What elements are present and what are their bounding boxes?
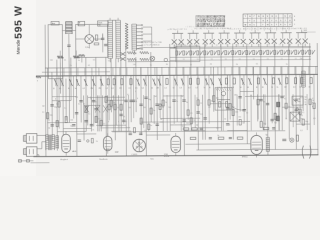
wire box link2: [79, 54, 85, 62]
value box electrolytic: [292, 96, 303, 105]
wire: [90, 76, 92, 132]
tube label VM4: [164, 154, 169, 158]
svg-text:0,1: 0,1: [237, 45, 239, 47]
resistor R44: [308, 78, 312, 89]
title maker Mende: [16, 39, 22, 54]
svg-text:1b: 1b: [96, 141, 98, 143]
band switch table: [243, 14, 292, 27]
svg-text:+: +: [298, 104, 299, 106]
wire: [187, 75, 189, 120]
resistor R41: [284, 78, 288, 89]
wire: [243, 75, 245, 124]
svg-text:100: 100: [238, 117, 241, 119]
parts value table: [196, 15, 226, 28]
caption left stub: [168, 29, 187, 31]
switch contact pair S5: [234, 28, 246, 46]
svg-text:1k: 1k: [312, 100, 314, 102]
svg-text:30: 30: [262, 87, 264, 89]
junction circle: [87, 140, 89, 142]
trimmer capacitor CT11: [246, 50, 252, 54]
capacitor C8: [94, 108, 97, 109]
wire: [122, 76, 124, 125]
svg-text:50: 50: [173, 87, 175, 89]
trimmer capacitor CT19: [302, 50, 308, 54]
svg-text:10: 10: [125, 121, 127, 123]
resistor R21: [135, 79, 140, 90]
wire: [278, 94, 280, 130]
svg-text:0,1: 0,1: [64, 108, 66, 110]
wire: [145, 75, 147, 155]
wire: [208, 75, 210, 124]
capacitor C16: [259, 99, 262, 100]
resistor R30: [204, 78, 209, 89]
svg-text:5n: 5n: [111, 107, 113, 109]
additional small components: [50, 99, 315, 130]
svg-text:1k: 1k: [78, 60, 80, 62]
wire under tuning: [128, 60, 176, 62]
svg-text:0,1: 0,1: [144, 130, 146, 132]
comb output wires: [143, 27, 152, 48]
resistor R50: [162, 100, 164, 106]
capacitor C13: [196, 112, 199, 113]
rail bottom B: [196, 148, 318, 151]
phono hook right: [309, 146, 311, 159]
svg-text:5n: 5n: [263, 101, 265, 103]
earth squiggle: [36, 76, 41, 78]
trimmer capacitor CT7: [218, 51, 224, 55]
capacitor C10: [144, 97, 147, 98]
svg-text:0,1: 0,1: [88, 65, 90, 67]
wire: [87, 95, 89, 125]
wire: [75, 63, 78, 157]
junction circle r: [296, 108, 299, 111]
trimmer capacitor CT12: [253, 50, 259, 60]
svg-text:4b: 4b: [305, 104, 307, 106]
wire: [250, 94, 252, 130]
wire: [92, 76, 94, 127]
switch contact pair S3: [203, 29, 215, 47]
trimmer capacitor CT4: [197, 51, 203, 61]
svg-text:1k: 1k: [196, 98, 198, 100]
svg-text:1k: 1k: [151, 87, 153, 89]
resistor R57: [56, 121, 58, 127]
svg-text:0,2: 0,2: [232, 107, 234, 109]
svg-text:1k: 1k: [277, 87, 279, 89]
wire: [105, 57, 108, 156]
svg-text:Mende: Mende: [16, 39, 22, 54]
resistor R13: [75, 79, 80, 90]
padder X lower: [120, 57, 125, 61]
svg-text:a: a: [294, 16, 295, 18]
svg-text:0,5: 0,5: [182, 126, 184, 128]
wire: [232, 44, 235, 140]
capacitor C32: [229, 137, 232, 138]
table caption 2: [243, 27, 296, 30]
label box bandfilter: [78, 21, 85, 26]
wire: [202, 95, 204, 140]
wire: [150, 52, 152, 122]
resistor R17: [106, 79, 110, 90]
svg-text:b: b: [294, 20, 295, 22]
svg-text:100: 100: [235, 112, 238, 114]
resistor R45: [237, 137, 243, 139]
trimmer capacitor CT10: [239, 50, 245, 60]
rail distribution upper: [45, 66, 318, 68]
svg-text:5n: 5n: [260, 100, 262, 102]
resistor R58: [95, 116, 97, 122]
resistor R38: [262, 78, 267, 89]
svg-text:EFM11: EFM11: [242, 156, 248, 158]
resistor R50: [91, 138, 97, 143]
resistor R56: [302, 119, 304, 125]
wire: [56, 60, 59, 151]
wire: [266, 67, 269, 155]
wire: [220, 44, 223, 131]
svg-text:0,1: 0,1: [108, 60, 110, 62]
wire: [59, 63, 61, 94]
capacitor C22: [203, 118, 206, 119]
corner label aw: [302, 30, 316, 33]
svg-text:2,2n: 2,2n: [85, 47, 89, 49]
svg-text:0,1: 0,1: [78, 103, 80, 105]
bottom label 3: [131, 154, 137, 156]
svg-text:50: 50: [258, 45, 260, 47]
resistor R3 zigzag mid: [73, 50, 79, 62]
horizontal link q3a: [88, 96, 125, 98]
left stub mark: [37, 80, 39, 82]
svg-text:0,1: 0,1: [164, 87, 166, 89]
capacitor C18: [280, 96, 283, 97]
svg-text:15: 15: [268, 45, 270, 47]
svg-text:100: 100: [56, 104, 59, 106]
coil L6 wavy lower: [127, 58, 149, 61]
resistor R46: [85, 106, 87, 112]
svg-text:0,5: 0,5: [93, 59, 95, 61]
resistor R19: [119, 79, 123, 90]
resistor R2 zigzag left: [57, 51, 63, 63]
wire: [130, 75, 132, 122]
fuse F2: [26, 160, 29, 162]
svg-text:15: 15: [226, 45, 228, 47]
capacitor C31: [209, 137, 212, 138]
fuse F1: [18, 160, 21, 162]
wire: [274, 43, 277, 149]
link a: [52, 96, 76, 98]
svg-text:1k: 1k: [217, 135, 219, 137]
resistor R26: [173, 78, 178, 89]
trimmer capacitor CT2: [183, 51, 189, 61]
resistor R33: [224, 78, 228, 89]
svg-text:10: 10: [271, 87, 273, 89]
resistor R54: [260, 121, 262, 127]
capacitor C1 2200pF: [85, 34, 104, 49]
svg-text:4: 4: [266, 135, 267, 137]
svg-text:0,1: 0,1: [301, 115, 303, 117]
wire: [113, 95, 115, 131]
capacitor C14: [226, 108, 229, 109]
resistor R43: [299, 78, 303, 89]
wire: [140, 67, 142, 135]
wire: [114, 76, 116, 141]
coil L5 wavy upper: [127, 51, 149, 54]
wire: [95, 57, 97, 122]
svg-text:10: 10: [240, 87, 242, 89]
wire: [51, 72, 53, 140]
wire: [128, 95, 130, 131]
ladder top links: [110, 18, 134, 63]
text column right: [305, 97, 307, 107]
resistor R34: [232, 78, 236, 89]
svg-text:1k: 1k: [285, 118, 287, 120]
bottom label 1: [60, 158, 67, 161]
wire: [98, 95, 100, 131]
capacitor C15: [238, 97, 241, 98]
caption mid stub: [229, 28, 242, 30]
resistor R59: [150, 108, 152, 114]
svg-text:30: 30: [48, 128, 50, 130]
resistor R12: [68, 79, 73, 90]
wire link: [141, 121, 163, 123]
wire: [173, 75, 175, 124]
svg-text:5n: 5n: [113, 102, 115, 104]
svg-text:1k: 1k: [70, 65, 72, 67]
svg-text:C 4876: C 4876: [131, 154, 137, 156]
svg-text:1k: 1k: [48, 120, 50, 122]
wire: [295, 66, 298, 149]
resistor R28: [188, 78, 192, 89]
wire: [110, 58, 112, 112]
resistor R43: [190, 137, 196, 139]
chassis rail: [33, 155, 318, 157]
wave band coil L4: [132, 24, 137, 50]
resistor R53: [232, 110, 234, 116]
trimmer capacitor CT13: [260, 50, 266, 54]
wire: [147, 75, 149, 131]
switch comb contacts: [137, 24, 143, 49]
svg-text:0,5: 0,5: [98, 118, 100, 120]
svg-text:p: p: [230, 29, 231, 31]
grid rail: [112, 131, 285, 132]
svg-text:50: 50: [300, 44, 302, 46]
horizontal link q3b: [84, 104, 100, 106]
wire: [229, 75, 231, 120]
wire link bt2: [77, 133, 96, 135]
table caption 2b: [296, 28, 307, 30]
svg-text:0,5: 0,5: [142, 87, 144, 89]
resistor R45: [65, 117, 67, 123]
svg-text:10: 10: [83, 103, 85, 105]
wire: [281, 67, 283, 131]
capacitor C17: [266, 103, 269, 104]
wire: [278, 94, 280, 130]
output tube AL4: [62, 131, 77, 155]
svg-text:1k: 1k: [193, 120, 195, 122]
resistor R49: [140, 118, 142, 124]
wire: [180, 95, 182, 131]
horizontal link q4b: [160, 120, 250, 123]
svg-text:0,3: 0,3: [188, 87, 190, 89]
svg-text:8: 8: [234, 29, 235, 31]
antenna coil L1 iron core: [66, 22, 73, 61]
capacitor C12: [182, 100, 185, 101]
resistor R61: [110, 100, 112, 106]
svg-text:50p: 50p: [148, 99, 151, 101]
bus value labels: [174, 44, 302, 47]
switch contact pair S9: [296, 28, 308, 46]
wire link: [296, 123, 310, 125]
capacitor C41: [129, 133, 132, 134]
svg-text:30: 30: [205, 45, 207, 47]
shield box bandfilter II: [176, 43, 200, 62]
wire: [58, 76, 60, 129]
wire: [309, 43, 312, 155]
wire: [302, 43, 304, 111]
svg-text:0,1: 0,1: [42, 112, 44, 114]
resistor R36: [247, 78, 252, 89]
svg-text:5n: 5n: [176, 101, 178, 103]
switch chevron contacts: [125, 23, 128, 49]
loudspeaker LS1: [23, 134, 37, 144]
capacitor C19: [294, 99, 297, 100]
speaker wires: [37, 135, 46, 156]
labels bottom left: [42, 91, 136, 114]
pilot lamp: [290, 138, 294, 142]
wire: [257, 94, 259, 121]
svg-text:50p: 50p: [50, 115, 53, 117]
shield box antenna section: [48, 25, 63, 79]
wire: [70, 58, 72, 101]
capacitor C6: [50, 105, 53, 106]
wire: [153, 95, 155, 124]
resistor R39: [271, 78, 275, 89]
wire: [46, 68, 48, 141]
capacitor C40: [78, 140, 81, 141]
svg-text:0,1: 0,1: [88, 113, 90, 115]
svg-text:1k: 1k: [92, 129, 94, 131]
svg-text:3: 3: [135, 91, 136, 93]
svg-text:100: 100: [216, 98, 219, 100]
wire link: [52, 100, 71, 102]
wire: [197, 67, 200, 150]
wire: [107, 95, 109, 136]
wire link: [96, 124, 126, 126]
X box bias: [290, 112, 303, 121]
resistor R46: [296, 135, 298, 141]
table caption 1: [195, 27, 232, 30]
svg-text:NF: NF: [196, 125, 198, 127]
wire tube to parts: [94, 33, 103, 52]
svg-text:30: 30: [117, 107, 119, 109]
wire: [162, 75, 164, 131]
tube label right: [242, 156, 248, 158]
switch contact pair S2: [187, 29, 199, 47]
svg-text:30: 30: [247, 87, 249, 89]
wire link: [170, 124, 191, 126]
capacitor C33: [282, 139, 286, 140]
wire: [115, 58, 117, 125]
svg-text:8: 8: [137, 98, 138, 100]
svg-text:0,1: 0,1: [112, 88, 114, 90]
resistor R24: [156, 78, 161, 89]
wire: [257, 75, 259, 120]
wire: [132, 75, 134, 118]
wire: [253, 67, 255, 100]
choke coil small: [56, 136, 59, 149]
svg-text:0,5: 0,5: [190, 113, 192, 115]
components above tube5: [263, 127, 275, 136]
svg-text:Antr: Antr: [52, 22, 56, 25]
resistor R51: [133, 128, 135, 133]
svg-text:0,5: 0,5: [200, 114, 202, 116]
svg-text:5n: 5n: [95, 101, 97, 103]
resistor R52: [213, 96, 215, 102]
wire: [176, 44, 178, 122]
trimmer capacitor CT20: [309, 50, 315, 60]
svg-text:a: a: [232, 29, 233, 31]
capacitor C20: [84, 120, 87, 121]
svg-text:1k: 1k: [165, 102, 167, 104]
wire: [156, 67, 158, 140]
component value labels: [50, 97, 309, 127]
bottom label 4: [150, 157, 154, 160]
svg-text:8: 8: [211, 101, 212, 103]
svg-text:k: k: [285, 24, 286, 26]
svg-text:595 W: 595 W: [12, 5, 24, 38]
resistor R47: [105, 96, 107, 102]
wave band coil L3: [116, 20, 121, 58]
choke L9: [266, 137, 269, 151]
wire: [213, 67, 215, 112]
link d: [282, 106, 303, 108]
tube V1 mixer circle: [76, 25, 94, 49]
svg-text:30: 30: [224, 119, 226, 121]
bus wire upper: [170, 45, 311, 48]
resistor R51: [190, 118, 192, 124]
svg-text:30: 30: [160, 119, 162, 121]
svg-text:8: 8: [136, 101, 137, 103]
wire: [260, 43, 262, 121]
svg-text:0,5: 0,5: [135, 87, 137, 89]
table side labels: [294, 16, 295, 26]
svg-text:50p: 50p: [75, 97, 78, 99]
trimmer capacitor CT14: [267, 50, 273, 60]
wire: [313, 74, 315, 125]
wire: [100, 76, 102, 132]
resistor R32: [217, 78, 222, 89]
wire: [85, 57, 87, 131]
resistor R25: [164, 78, 168, 89]
capacitor C30: [200, 128, 203, 129]
svg-text:5: 5: [161, 42, 162, 44]
svg-text:100: 100: [168, 107, 171, 109]
resistor R1 grid leak: [94, 43, 99, 45]
wire link: [227, 129, 247, 131]
wire: [292, 94, 294, 127]
svg-text:5n: 5n: [186, 102, 188, 104]
resistor R23: [151, 79, 156, 90]
svg-text:Ausgleich: Ausgleich: [60, 158, 67, 161]
svg-text:Bandbreite: Bandbreite: [99, 158, 107, 161]
resistor R40: [276, 78, 281, 89]
capacitor C42: [139, 130, 146, 134]
wire link: [198, 127, 221, 129]
trimmer capacitor CT1: [176, 51, 182, 55]
svg-text:30: 30: [190, 64, 192, 66]
svg-text:1k: 1k: [242, 122, 244, 124]
arrow wire to IF box: [150, 47, 176, 49]
svg-text:100: 100: [128, 107, 131, 109]
bottom label 2: [99, 158, 107, 161]
